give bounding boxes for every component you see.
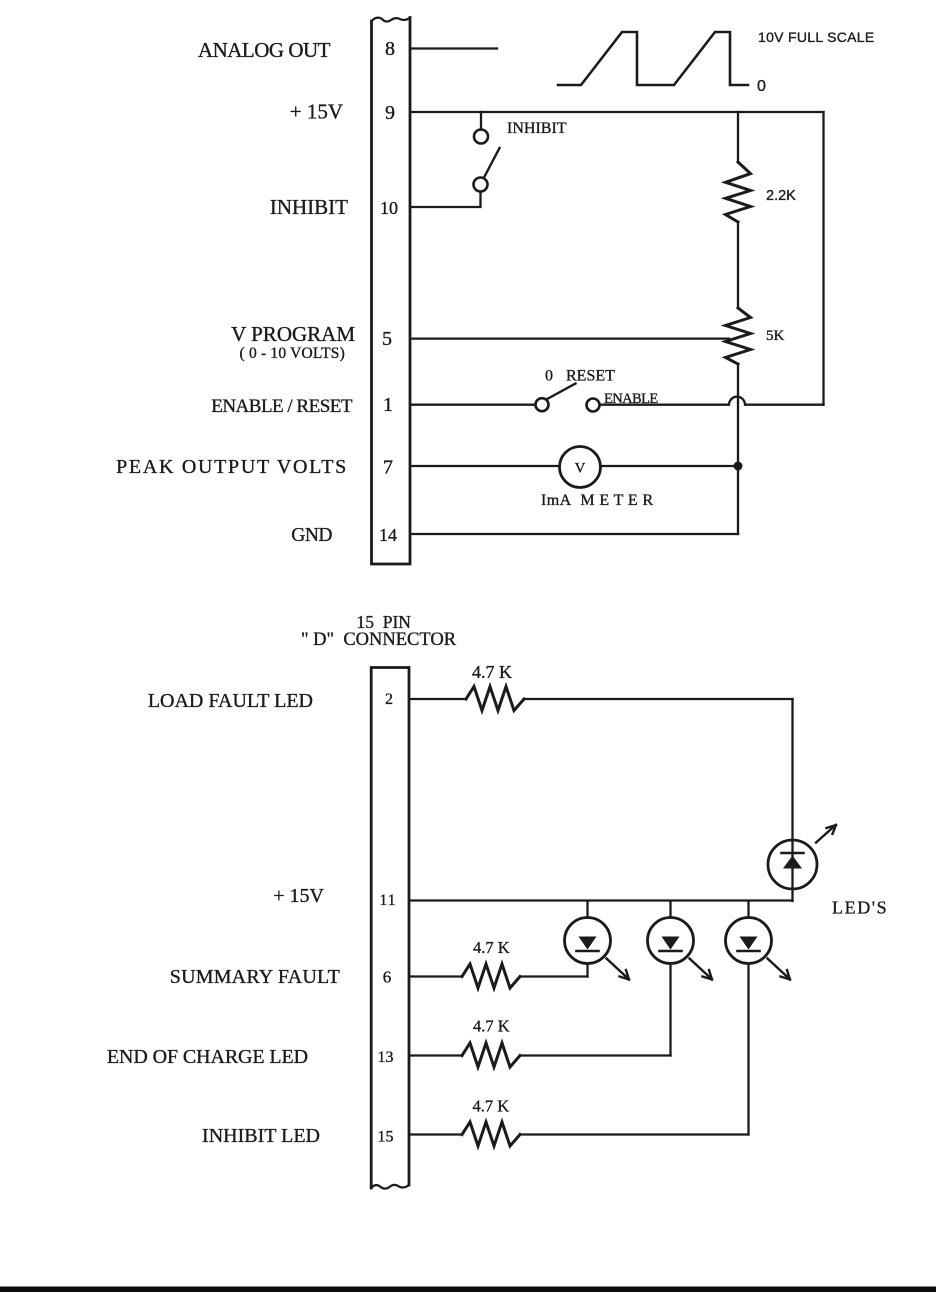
LED D4 light arrow (768, 959, 791, 980)
svg-text:10: 10 (380, 198, 398, 218)
switch S1 INHIBIT bottom contact (474, 178, 488, 192)
LED D2 circle (565, 918, 611, 964)
wire pin 2 left (409, 698, 466, 700)
svg-text:14: 14 (379, 525, 397, 545)
wire pin 15 left (409, 1133, 462, 1135)
svg-text:INHIBIT LED: INHIBIT LED (202, 1125, 320, 1147)
wire pin 15 right (520, 1133, 749, 1135)
svg-text:4.7 K: 4.7 K (473, 938, 510, 957)
bottom black bar (0, 1287, 936, 1293)
LED D1 circle (768, 840, 817, 889)
svg-text:4.7 K: 4.7 K (473, 1017, 510, 1036)
LED D2 stub top (586, 901, 588, 918)
wire 5K down through junction to GND rail (737, 364, 739, 534)
wire pin 14 GND (411, 533, 738, 535)
svg-text:10V FULL SCALE: 10V FULL SCALE (758, 29, 875, 45)
switch S2 lever (548, 384, 576, 399)
wire pin 11 +15V rail (lower) (409, 899, 793, 901)
svg-text:V: V (575, 461, 586, 477)
wire pin 13 right (520, 1054, 671, 1056)
wire pin 7 to meter (411, 465, 560, 467)
wire LED D1 vertical (791, 699, 793, 901)
svg-text:( 0 - 10 VOLTS): ( 0 - 10 VOLTS) (240, 345, 345, 362)
svg-text:RESET: RESET (566, 368, 615, 385)
svg-text:LOAD FAULT LED: LOAD FAULT LED (148, 690, 313, 712)
svg-text:PEAK OUTPUT VOLTS: PEAK OUTPUT VOLTS (116, 456, 348, 478)
LED D4 cathode bar (738, 950, 760, 953)
svg-text:4.7 K: 4.7 K (473, 1097, 510, 1116)
waveform sawtooth (558, 32, 748, 85)
LED D1 cathode bar (782, 852, 804, 855)
svg-text:INHIBIT: INHIBIT (270, 195, 348, 219)
wire +15V to 2.2K (737, 112, 739, 162)
svg-text:15 PIN: 15 PIN (357, 612, 412, 632)
wire pin 10 to inhibit switch (411, 192, 481, 208)
LED D3 triangle (662, 937, 680, 950)
wire pin 1 to reset switch (411, 404, 536, 406)
wire 2.2K to 5K (737, 222, 739, 308)
svg-text:LED'S: LED'S (832, 898, 888, 918)
wire enable to right rail with hop (600, 397, 824, 405)
LED D2 cathode bar (577, 950, 599, 953)
LED D2 stub bottom (586, 964, 588, 977)
svg-text:8: 8 (385, 38, 395, 60)
LED D2 light arrow (607, 959, 630, 980)
connector J1 body (15 pin D, upper) (372, 18, 411, 565)
wire pin 6 right (520, 975, 588, 977)
svg-text:0: 0 (757, 78, 766, 95)
svg-text:ENABLE / RESET: ENABLE / RESET (211, 396, 353, 417)
resistor R1 2.2K (726, 162, 751, 222)
wire pin 8 stub (411, 47, 497, 49)
svg-text:ANALOG OUT: ANALOG OUT (198, 38, 331, 62)
switch S2 RESET contact (536, 398, 549, 411)
meter M1 circle (560, 447, 601, 488)
resistor R5 4.7K (462, 1043, 520, 1067)
svg-text:9: 9 (385, 102, 395, 124)
LED D4 stub top (747, 901, 749, 918)
LED D4 triangle (740, 937, 758, 950)
LED D3 cathode bar (660, 950, 682, 953)
svg-text:0: 0 (545, 368, 553, 385)
LED D3 stub bottom (669, 964, 671, 1056)
wire pin 2 right (524, 698, 793, 700)
svg-text:13: 13 (378, 1049, 394, 1066)
switch S1 INHIBIT stub (480, 112, 482, 130)
svg-text:" D" CONNECTOR: " D" CONNECTOR (301, 630, 457, 650)
LED D3 stub top (669, 901, 671, 918)
LED D2 triangle (579, 937, 597, 950)
svg-text:END OF CHARGE LED: END OF CHARGE LED (107, 1046, 308, 1068)
svg-text:7: 7 (383, 457, 393, 479)
svg-text:ImA M E T E R: ImA M E T E R (541, 492, 654, 509)
svg-text:GND: GND (291, 525, 332, 546)
switch S1 INHIBIT lever (484, 148, 500, 178)
svg-text:5: 5 (382, 328, 392, 350)
junction node dot (734, 462, 743, 471)
svg-text:2.2K: 2.2K (766, 188, 796, 204)
wire pin 13 left (409, 1054, 462, 1056)
wire meter to junction (601, 465, 739, 467)
svg-text:5K: 5K (766, 328, 785, 344)
svg-text:SUMMARY FAULT: SUMMARY FAULT (170, 966, 340, 988)
wire +15V rail pin 9 (411, 111, 824, 113)
LED D3 light arrow (690, 959, 713, 980)
svg-text:11: 11 (380, 892, 397, 909)
wire pin 5 V PROGRAM (411, 337, 729, 339)
LED D1 triangle (783, 856, 802, 869)
LED D4 circle (726, 918, 772, 964)
svg-text:+ 15V: + 15V (290, 100, 343, 124)
wire right vertical rail (822, 112, 824, 405)
resistor R2 5K (726, 308, 751, 364)
svg-text:15: 15 (378, 1129, 394, 1146)
svg-text:6: 6 (383, 968, 392, 987)
svg-text:1: 1 (383, 394, 393, 416)
switch S1 INHIBIT top contact (474, 130, 488, 144)
svg-text:2: 2 (385, 691, 393, 708)
resistor R4 4.7K (462, 964, 520, 988)
LED D4 stub bottom (747, 964, 749, 1135)
connector J1 torn top edge (372, 18, 411, 22)
connector J2 torn bottom edge (371, 1185, 409, 1189)
wire pin 6 left (409, 975, 462, 977)
connector J2 body (lower) (371, 668, 409, 1189)
resistor R3 4.7K (466, 687, 524, 711)
svg-text:4.7 K: 4.7 K (472, 662, 512, 682)
LED D3 circle (648, 918, 694, 964)
svg-text:+ 15V: + 15V (273, 885, 324, 907)
LED D1 light arrow (816, 825, 836, 843)
svg-text:INHIBIT: INHIBIT (507, 120, 567, 137)
resistor R6 4.7K (462, 1122, 520, 1146)
switch S2 ENABLE contact (587, 399, 600, 412)
svg-text:V PROGRAM: V PROGRAM (231, 322, 355, 346)
